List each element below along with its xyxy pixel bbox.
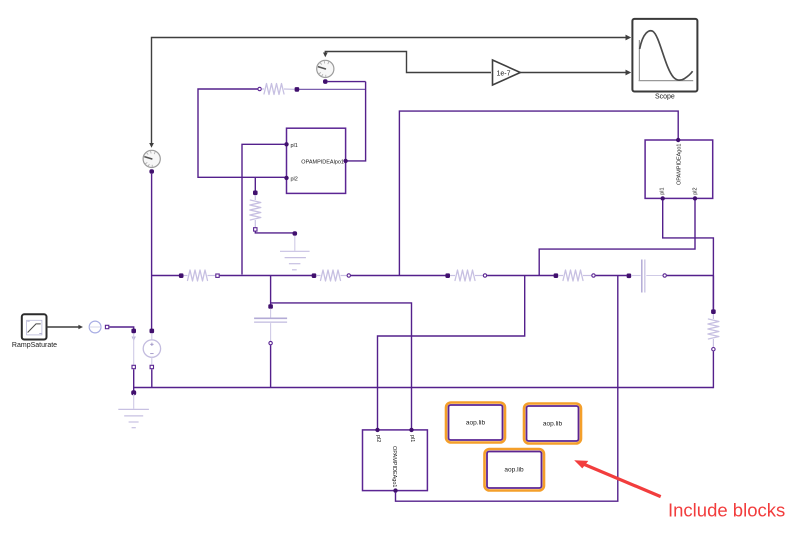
arrowhead into meter2 (down) xyxy=(323,53,328,58)
wire: opamp3 pl2 up right to bus xyxy=(378,276,525,429)
wire: node vertical down to opamp1 output xyxy=(347,82,366,161)
wire: gray signal meter2 to gain xyxy=(325,52,491,73)
wire: resistor Rt1 to node (medium) xyxy=(299,88,366,90)
wire: bus right end down to Rv2 xyxy=(712,276,714,311)
wire: opamp2 pl1 down right to bus right end xyxy=(663,200,714,310)
wire: ground stub 1 xyxy=(294,236,296,251)
voltage source V1 xyxy=(143,329,160,369)
svg-text:OPAMPIDEAgo1: OPAMPIDEAgo1 xyxy=(391,446,397,487)
wire: top loop node to opamp2 xyxy=(399,111,678,275)
wire: opamp2 pl2 left to bus xyxy=(539,200,695,275)
wire: opamp1 pl1 to bus xyxy=(242,144,285,274)
resistor R7 (vertical) xyxy=(708,309,719,351)
wire: source to bottom bus xyxy=(151,369,153,387)
svg-text:RampSaturate: RampSaturate xyxy=(12,342,57,349)
wire: C1 bottom to bottom bus xyxy=(270,345,272,387)
svg-text:OPAMPIDEAgo1: OPAMPIDEAgo1 xyxy=(677,144,683,185)
wire: converter to node xyxy=(109,327,133,329)
wire: bus node C segment xyxy=(351,275,446,277)
svg-text:Scope: Scope xyxy=(655,94,675,101)
include block aop.lib 3 xyxy=(485,449,545,491)
wire: bus node A segment xyxy=(152,275,179,277)
arrowhead into meter1 (down) xyxy=(149,143,154,148)
junction dot ground stub xyxy=(131,390,136,395)
wire: Rv1 bottom to ground node xyxy=(255,232,293,233)
resistor R4 xyxy=(312,270,351,281)
wire: bus node B segment xyxy=(220,275,312,277)
port terminal converter output xyxy=(105,325,108,328)
terminal dot meter2 bottom xyxy=(323,79,328,84)
svg-text:aop.lib: aop.lib xyxy=(504,466,524,473)
resistor R1 (feedback) xyxy=(258,84,299,95)
svg-text:OPAMPIDEAlpo1: OPAMPIDEAlpo1 xyxy=(301,159,344,165)
light signal line down xyxy=(133,334,135,365)
bottom bus wire xyxy=(134,387,714,389)
svg-text:aop.lib: aop.lib xyxy=(466,420,486,427)
wire: ground stub 2 xyxy=(133,394,135,409)
wire: meter1 down through bus to source xyxy=(151,174,153,329)
resistor R6 xyxy=(554,270,596,281)
svg-text:pl1: pl1 xyxy=(659,187,665,194)
svg-text:pl2: pl2 xyxy=(375,435,381,442)
ground 1 xyxy=(280,251,310,269)
wire: gray ramp output xyxy=(47,326,79,328)
arrowhead into scope input1 (right) xyxy=(626,35,632,41)
svg-text:aop.lib: aop.lib xyxy=(543,420,563,427)
capacitor C1 xyxy=(254,304,287,345)
resistor R2 (vertical) xyxy=(250,191,261,232)
wire: C1 node right to opamp3 pl1 xyxy=(271,303,412,429)
capacitor C2 xyxy=(627,260,667,293)
svg-text:pl2: pl2 xyxy=(291,176,298,182)
meter M2 xyxy=(317,60,334,77)
wire: bus node F segment xyxy=(667,275,714,277)
wire: gray gain output to scope input2 xyxy=(520,72,626,74)
wire: bus node D segment xyxy=(487,275,554,277)
wire: meter2 dot to node xyxy=(328,81,366,83)
port terminal xyxy=(132,365,135,368)
wire: stub from pl2 net down to Rv1 xyxy=(254,177,256,192)
resistor R3 xyxy=(179,270,219,281)
wire: gray signal meter1 to scope input1 xyxy=(152,38,627,144)
op-amp U3 xyxy=(363,428,428,493)
wire: opamp3 output loop up to bus xyxy=(396,276,618,502)
include block aop.lib 1 xyxy=(446,403,505,443)
terminal dot node xyxy=(131,329,136,334)
svg-text:Include blocks: Include blocks xyxy=(668,500,785,521)
op-amp U2 xyxy=(645,138,713,201)
wire: bus node E segment xyxy=(596,275,627,277)
scope block Scope xyxy=(632,19,697,92)
include block aop.lib 2 xyxy=(524,404,581,444)
arrowhead ramp signal (right) xyxy=(78,325,83,330)
svg-text:pl1: pl1 xyxy=(291,143,298,149)
svg-text:pl2: pl2 xyxy=(693,187,699,194)
gain block G1 value 1e-7 xyxy=(493,60,521,85)
svg-text:1e-7: 1e-7 xyxy=(496,70,510,77)
op-amp U1 xyxy=(284,128,348,193)
signal-to-physical converter CV1 xyxy=(89,321,101,333)
wire: Rv2 bottom to bottom bus xyxy=(712,351,714,388)
source block RampSaturate xyxy=(22,314,47,339)
resistor R5 xyxy=(445,270,486,281)
red annotation arrow xyxy=(574,460,661,496)
wire: port down to ground bus xyxy=(133,369,135,392)
terminal dot meter1 bottom xyxy=(149,169,154,174)
meter M1 xyxy=(143,150,160,167)
signal arrow light (down) xyxy=(132,337,136,342)
arrowhead into scope input2 (right) xyxy=(626,70,632,76)
terminal dot ground1 node xyxy=(293,231,298,236)
wire: bus down to capacitor C1 xyxy=(270,276,272,305)
ground 2 xyxy=(118,409,149,427)
wire: feedback loop left xyxy=(198,89,285,177)
svg-text:pl1: pl1 xyxy=(409,435,415,442)
